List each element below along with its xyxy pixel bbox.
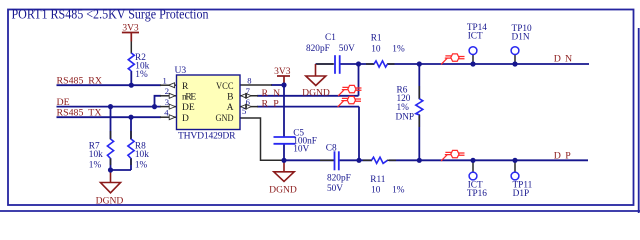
node C8/R11/R_P: [356, 158, 361, 163]
TP10 stem: [514, 55, 516, 65]
wire R6 branch: [418, 64, 420, 99]
svg-text:3V3: 3V3: [274, 67, 291, 77]
svg-text:2: 2: [165, 86, 169, 96]
C8 left lead: [320, 159, 334, 161]
power 3V3 at U3 pin8: [277, 76, 290, 84]
svg-text:C8: C8: [326, 143, 337, 153]
wire RS485_TX: [57, 116, 162, 118]
wire VCC node down to C5: [283, 85, 285, 137]
wire R7 bottom lead: [110, 159, 112, 171]
svg-text:D1N: D1N: [512, 32, 530, 42]
node R2/RX: [129, 83, 134, 88]
pin 1 stub: [160, 84, 176, 86]
svg-text:10k: 10k: [135, 150, 149, 160]
R11 labels: [370, 175, 404, 195]
wire pin8 to 3V3 node: [271, 84, 284, 86]
svg-text:U3: U3: [175, 65, 187, 76]
svg-text:DE: DE: [182, 103, 195, 113]
U3 pin numbers: [163, 75, 252, 117]
resistor R11 zigzag: [372, 157, 388, 163]
diff pair directive on R_N: [338, 85, 361, 96]
svg-text:A: A: [227, 103, 234, 113]
op-amp/transceiver U3 body: [177, 75, 241, 130]
svg-text:DNP: DNP: [396, 112, 415, 122]
pin7 bidir arrows: [241, 93, 252, 98]
svg-text:DGND: DGND: [269, 184, 297, 195]
svg-text:R: R: [262, 88, 269, 99]
node TP14: [470, 61, 475, 66]
resistor R7 zigzag: [107, 139, 113, 159]
svg-text:820pF: 820pF: [306, 44, 330, 54]
pin 8 stub: [240, 84, 272, 86]
capacitor C5 plates: [274, 137, 296, 144]
wire R7-R8 bottom join: [111, 169, 132, 171]
wire R2 bottom lead: [130, 71, 132, 85]
svg-text:PORT1 RS485 <2.5KV Surge Prote: PORT1 RS485 <2.5KV Surge Protection: [12, 7, 209, 22]
svg-text:8: 8: [247, 75, 251, 85]
svg-text:10: 10: [371, 45, 381, 55]
node R7/DE: [108, 104, 113, 109]
svg-text:TX: TX: [88, 108, 101, 119]
svg-text:THVD1429DR: THVD1429DR: [178, 131, 236, 142]
R6 leads: [418, 86, 420, 99]
capacitor C1 plates: [335, 55, 340, 74]
R1 leads: [366, 63, 375, 65]
wire R_N pin7: [257, 95, 359, 97]
TP16 stem: [472, 160, 474, 172]
svg-text:GND: GND: [216, 114, 234, 124]
resistor R6 zigzag: [416, 99, 423, 115]
svg-text:C1: C1: [325, 33, 336, 43]
capacitor C8 plates: [335, 151, 339, 170]
svg-text:R: R: [182, 82, 189, 92]
diff pair directive on R_P: [338, 96, 361, 107]
R6 labels: [396, 85, 415, 122]
svg-text:1%: 1%: [135, 160, 148, 170]
svg-text:4: 4: [164, 108, 169, 118]
wire DE: [57, 106, 162, 108]
node C5 gnd: [281, 158, 286, 163]
svg-text:N: N: [565, 53, 572, 64]
svg-text:B: B: [227, 92, 233, 102]
node R6 bottom: [417, 158, 422, 163]
wire R7 top lead: [110, 107, 112, 139]
U3 pin direction arrows: [169, 83, 252, 120]
pin 7 stub: [240, 95, 258, 97]
C5 labels: [293, 129, 317, 155]
R1 labels: [371, 33, 405, 54]
svg-text:3: 3: [165, 97, 169, 107]
diff pair directive on D_P: [441, 150, 464, 161]
node TP16: [470, 158, 475, 163]
R8 labels: [135, 141, 149, 170]
pin 6 stub: [240, 106, 258, 108]
svg-text:RS485: RS485: [57, 108, 84, 119]
C1 left lead: [316, 63, 334, 65]
sheet border: [8, 10, 634, 206]
svg-text:P: P: [273, 99, 279, 110]
svg-text:P: P: [565, 150, 571, 161]
wire C8 to node: [340, 159, 373, 161]
wire R1 to D_N end: [388, 63, 590, 65]
svg-text:DGND: DGND: [302, 87, 330, 98]
svg-text:RS485: RS485: [57, 76, 84, 87]
svg-text:10k: 10k: [89, 150, 103, 160]
test point TP10: [511, 47, 519, 55]
R7 labels: [89, 141, 103, 170]
pin 2 stub: [160, 95, 176, 97]
svg-text:N: N: [273, 88, 280, 99]
svg-text:1%: 1%: [392, 45, 405, 55]
ground DGND under C1: [306, 64, 326, 86]
node R8/TX: [128, 115, 133, 120]
node nRE/DE: [152, 104, 157, 109]
wire R_P pin6: [257, 106, 359, 108]
U3 pin names: [182, 82, 234, 124]
svg-text:10V: 10V: [293, 144, 309, 154]
power 3V3 at R2: [122, 33, 139, 42]
svg-text:3V3: 3V3: [122, 24, 139, 34]
pin6 bidir arrows: [241, 104, 252, 109]
svg-text:R: R: [262, 99, 269, 110]
pin4 arrow (in): [169, 115, 175, 120]
resistor R8 zigzag: [128, 139, 134, 159]
svg-text:50V: 50V: [327, 184, 343, 194]
svg-text:R1: R1: [371, 33, 382, 43]
outer sheet edge right: [638, 28, 640, 213]
svg-text:10: 10: [371, 186, 381, 196]
svg-text:DE: DE: [57, 97, 70, 108]
svg-text:1%: 1%: [392, 186, 405, 196]
pin 3 stub: [160, 106, 176, 108]
pin2 arrow (in): [169, 93, 175, 98]
node C1/R1/R_N: [356, 61, 361, 66]
svg-text:50V: 50V: [339, 44, 355, 54]
svg-text:D: D: [554, 53, 561, 64]
R11 leads: [363, 159, 372, 161]
wire R_P riser: [358, 107, 360, 161]
wire R11 to D_P end: [389, 159, 588, 161]
svg-text:R11: R11: [370, 175, 386, 185]
R7 leads: [110, 131, 112, 140]
svg-text:TP16: TP16: [467, 189, 487, 199]
outer sheet edge bottom: [0, 210, 640, 212]
node TP11: [512, 158, 517, 163]
resistor R2 zigzag: [128, 53, 134, 71]
wire R8 top lead: [130, 117, 132, 139]
svg-text:RX: RX: [88, 76, 102, 87]
node TP10: [512, 61, 517, 66]
TP11 stem: [514, 160, 516, 172]
pin1 arrow (out): [169, 83, 175, 88]
wire C5 bottom to ground node: [283, 144, 285, 161]
resistor R1 zigzag: [374, 61, 388, 67]
C1 labels: [306, 33, 355, 54]
svg-text:D1P: D1P: [513, 189, 530, 199]
svg-text:ICT: ICT: [468, 32, 483, 42]
pin3 arrow (in): [169, 104, 175, 109]
svg-text:D: D: [182, 114, 189, 124]
wire C1 right plate to node: [340, 63, 374, 65]
node VCC 3V3: [281, 82, 286, 87]
pin 4 stub: [160, 116, 176, 118]
ground DGND under C5: [274, 160, 294, 181]
diff pair directive on D_N: [441, 54, 464, 65]
svg-text:820pF: 820pF: [327, 173, 351, 183]
TP14 stem: [472, 55, 474, 65]
node R6 top: [417, 61, 422, 66]
test point TP14: [469, 47, 477, 55]
R2 labels: [135, 53, 150, 80]
pin 5 trace to ground: [240, 118, 284, 160]
ground DGND under R7 R8: [101, 170, 121, 193]
R2 top lead: [130, 42, 132, 54]
test point TP11: [511, 172, 519, 180]
wire RS485_RX: [57, 84, 162, 86]
wire ground rail to C8: [284, 159, 334, 161]
svg-text:1%: 1%: [135, 70, 148, 80]
R8 leads: [130, 131, 132, 140]
svg-text:1%: 1%: [89, 160, 102, 170]
wire nRE link vertical: [155, 96, 162, 107]
svg-text:nRE: nRE: [182, 92, 196, 102]
node R7/R8 gnd: [108, 167, 113, 172]
wire R_N riser: [358, 64, 360, 96]
svg-text:1: 1: [163, 76, 167, 86]
svg-text:VCC: VCC: [216, 82, 234, 92]
svg-text:DGND: DGND: [96, 195, 124, 206]
svg-text:D: D: [554, 150, 561, 161]
test point TP16: [469, 172, 477, 180]
wire DGND to C1 left plate: [316, 63, 334, 65]
C8 labels: [326, 143, 351, 194]
wire R8 bottom lead: [130, 159, 132, 171]
